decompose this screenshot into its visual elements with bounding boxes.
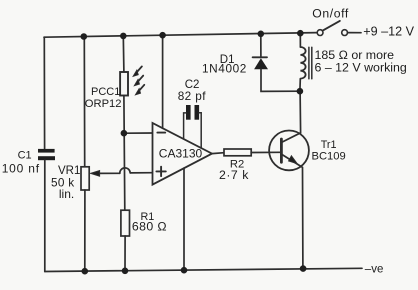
wire left branch lower (C1 to bottom rail) <box>44 160 46 271</box>
svg-text:–ve: –ve <box>365 263 384 275</box>
svg-text:6 – 12 V working: 6 – 12 V working <box>315 61 407 75</box>
capacitor C2 left lead <box>184 113 186 139</box>
photocell PCC1 light arrow 3 <box>136 85 145 95</box>
wire R2 to transistor base <box>251 151 281 153</box>
transistor Q1 Tr1 circle <box>269 131 309 171</box>
node bottom rail / op-amp V- <box>181 267 188 274</box>
wire op-amp output to R2 <box>212 152 224 155</box>
wire R1 to bottom rail <box>124 236 126 271</box>
node bottom rail / VR1 <box>82 268 89 275</box>
wire V+ supply to op-amp top edge <box>162 35 164 128</box>
photocell PCC1 light arrow 2 <box>134 76 143 86</box>
wire inverting input <box>124 132 153 134</box>
svg-text:C1: C1 <box>18 149 32 161</box>
wire hop (+ input crosses R1 branch, no connection) <box>120 168 130 173</box>
svg-text:lin.: lin. <box>59 187 74 201</box>
transistor emitter arrowhead <box>289 156 298 164</box>
resistor R1 <box>121 210 130 236</box>
wire relay branch from top rail <box>299 33 301 47</box>
relay core lines <box>309 47 312 79</box>
wire VR1 branch upper <box>83 37 85 167</box>
node top rail / D1 <box>258 31 265 38</box>
capacitor C1 <box>38 149 55 160</box>
capacitor C2 right lead <box>199 113 201 148</box>
svg-text:680 Ω: 680 Ω <box>132 220 167 234</box>
svg-text:100 nf: 100 nf <box>2 162 40 176</box>
svg-text:CA3130: CA3130 <box>159 146 203 160</box>
wire D1 anode down and across to relay bottom <box>261 69 300 91</box>
transistor emitter lead <box>282 154 303 268</box>
wire D1 branch from top rail <box>260 34 262 57</box>
wire VR1 branch lower <box>84 190 86 271</box>
capacitor C2 plates <box>186 105 199 120</box>
wire V- supply from op-amp bottom edge to bottom rail <box>183 168 185 270</box>
svg-text:ORP12: ORP12 <box>85 98 122 110</box>
node top rail / relay <box>297 30 304 37</box>
node top rail / VR1 <box>81 33 88 40</box>
photocell PCC1 body <box>120 72 128 96</box>
potentiometer VR1 <box>81 167 89 190</box>
diode D1 <box>253 57 268 69</box>
wire relay bottom to collector junction <box>299 79 301 91</box>
wire left branch upper (top rail to C1) <box>43 37 45 149</box>
wire PCC1 to inverting node and down to R1 <box>123 96 126 211</box>
op-amp minus input symbol <box>157 132 165 134</box>
wire PCC1 branch upper <box>122 36 125 72</box>
resistor R2 <box>224 149 251 156</box>
svg-text:1N4002: 1N4002 <box>202 62 247 76</box>
node inverting input / PCC1 / R1 <box>121 130 128 137</box>
wire VR1 wiper arrow to + input <box>96 172 120 174</box>
wire switch to supply label <box>348 32 361 34</box>
op-amp plus input symbol <box>156 167 165 176</box>
svg-text:Tr1: Tr1 <box>321 139 337 151</box>
node bottom rail / emitter <box>300 265 307 272</box>
transistor collector lead <box>282 91 301 142</box>
relay coil RLA <box>300 47 305 79</box>
transistor base bar <box>280 139 283 162</box>
photocell PCC1 light arrow 1 <box>133 66 142 76</box>
wire top rail <box>44 33 317 38</box>
svg-text:BC109: BC109 <box>312 150 346 162</box>
svg-text:On/off: On/off <box>312 6 349 20</box>
svg-text:82 pf: 82 pf <box>178 89 207 103</box>
node top rail / PCC1 <box>120 33 127 40</box>
wire bottom rail <box>45 268 362 271</box>
node top rail / op-amp V+ <box>159 32 166 39</box>
svg-text:+9 –12 V: +9 –12 V <box>363 24 414 38</box>
node bottom rail / R1 <box>122 268 129 275</box>
switch S1 On/off <box>317 21 347 36</box>
wire + input (hop to op-amp) <box>130 172 152 174</box>
svg-text:2·7 k: 2·7 k <box>219 168 249 182</box>
op-amp U1 CA3130 triangle <box>153 123 213 185</box>
node relay bottom / D1 / collector <box>297 88 304 95</box>
svg-text:PCC1: PCC1 <box>91 86 120 98</box>
